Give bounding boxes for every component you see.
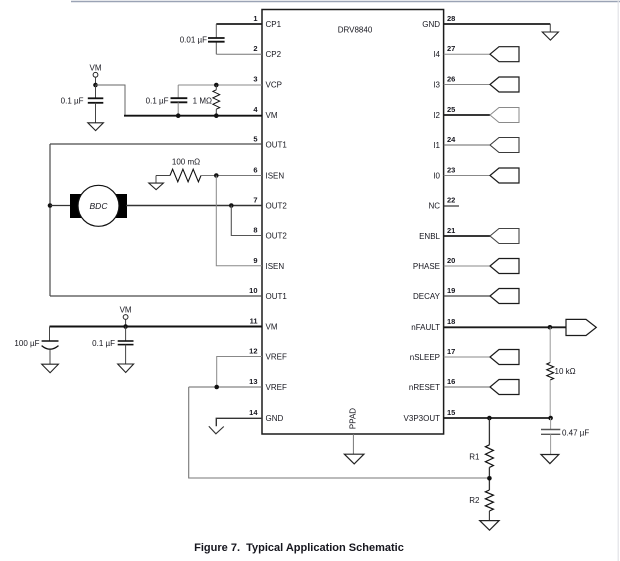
node VM rail junction	[123, 324, 128, 329]
wire pin10 OUT1	[50, 295, 262, 297]
svg-text:100 µF: 100 µF	[14, 339, 39, 348]
capacitor 100uF polarized	[49, 327, 51, 342]
wire cap loop vertical top	[215, 24, 217, 38]
wire pin2 CP2	[216, 53, 262, 55]
svg-text:22: 22	[447, 196, 455, 205]
resistor 10 kohm	[547, 363, 554, 381]
svg-text:12: 12	[249, 347, 257, 356]
svg-text:VREF: VREF	[266, 353, 287, 362]
svg-text:BDC: BDC	[90, 201, 109, 211]
svg-text:28: 28	[447, 14, 455, 23]
svg-text:17: 17	[447, 347, 455, 356]
node VCP junction	[214, 83, 219, 88]
node VREF junction	[214, 385, 219, 390]
svg-text:24: 24	[447, 135, 456, 144]
ground under 0.47uF	[541, 455, 559, 464]
input tag I4	[490, 47, 519, 62]
svg-text:CP2: CP2	[266, 50, 282, 59]
wire R1 top lead	[488, 418, 490, 445]
wire ISEN vertical to pin9	[216, 176, 262, 266]
wire VM rail bottom to pin11	[50, 326, 263, 328]
svg-text:26: 26	[447, 75, 455, 84]
wire VM terminal drop	[95, 77, 97, 85]
svg-text:20: 20	[447, 256, 455, 265]
motor BDC body	[78, 185, 119, 226]
wire pin22 NC stub	[444, 205, 459, 207]
svg-text:10 kΩ: 10 kΩ	[555, 367, 576, 376]
svg-text:0.47 µF: 0.47 µF	[562, 429, 589, 438]
wire pin1 CP1	[216, 23, 262, 25]
capacitor 0.1uF bottom	[125, 327, 127, 342]
ground at rsense	[155, 176, 157, 184]
page border right	[617, 0, 619, 561]
motor brush left	[70, 194, 86, 218]
ground under left 0.1uF cap	[88, 123, 104, 131]
wire pin3 VCP	[178, 84, 262, 86]
svg-text:CP1: CP1	[266, 20, 282, 29]
svg-text:0.1 µF: 0.1 µF	[146, 96, 169, 105]
svg-text:15: 15	[447, 408, 455, 417]
node ISEN junction	[214, 173, 219, 178]
svg-text:OUT1: OUT1	[266, 292, 288, 301]
node motor left	[48, 203, 53, 208]
input tag PHASE	[490, 259, 519, 274]
svg-text:VM: VM	[266, 111, 278, 120]
wire pin21 ENBL	[444, 235, 490, 237]
svg-text:13: 13	[249, 377, 257, 386]
svg-text:27: 27	[447, 44, 455, 53]
output tag nFAULT	[566, 319, 596, 335]
input tag DECAY	[490, 289, 519, 304]
wire cap loop vertical bottom	[215, 42, 217, 55]
wire jog to pin8	[231, 206, 262, 236]
input tag nSLEEP	[490, 350, 519, 365]
capacitor 0.47uF	[550, 418, 552, 430]
svg-text:VM: VM	[266, 323, 278, 332]
resistor 100 mohm	[170, 169, 201, 182]
svg-text:I0: I0	[433, 172, 440, 181]
wire pin16 nRESET	[444, 386, 490, 388]
node V3P3OUT junction cap	[548, 416, 553, 421]
wire pin26 I3	[444, 84, 490, 86]
input tag I0	[490, 168, 519, 183]
capacitor C1 0.01uF plates	[208, 37, 225, 39]
node R1/R2 junction	[487, 476, 492, 481]
svg-text:I2: I2	[433, 111, 440, 120]
svg-text:VM: VM	[120, 306, 132, 315]
wire VREF loop down and right	[189, 387, 490, 478]
svg-text:nSLEEP: nSLEEP	[410, 353, 440, 362]
svg-text:GND: GND	[266, 414, 284, 423]
svg-text:21: 21	[447, 226, 455, 235]
svg-text:10: 10	[249, 286, 257, 295]
svg-text:Figure 7. Typical Application: Figure 7. Typical Application Schematic	[194, 542, 404, 554]
svg-text:14: 14	[249, 408, 258, 417]
ground at pin14 (open V)	[209, 426, 224, 434]
svg-text:R2: R2	[469, 496, 480, 505]
PPAD lead	[352, 434, 354, 454]
svg-text:PHASE: PHASE	[413, 262, 440, 271]
wire pin24 I1	[444, 144, 490, 146]
node pin7/pin8 junction	[229, 203, 234, 208]
wire pin5 OUT1	[50, 143, 262, 145]
svg-text:VM: VM	[90, 64, 102, 73]
resistor R1	[485, 445, 493, 468]
wire R1 bottom lead	[488, 467, 490, 490]
svg-text:2: 2	[253, 44, 257, 53]
wire motor left	[50, 205, 72, 207]
svg-text:0.1 µF: 0.1 µF	[92, 339, 115, 348]
wire VM jog right	[96, 85, 126, 116]
node VM junction	[93, 83, 98, 88]
svg-text:0.01 µF: 0.01 µF	[180, 36, 207, 45]
svg-text:I4: I4	[433, 50, 440, 59]
wire pin12 VREF	[217, 357, 262, 388]
page border top	[71, 1, 620, 3]
wire rsense left lead	[156, 175, 170, 177]
resistor R2	[485, 490, 493, 511]
ground under R2	[480, 521, 499, 531]
wire pin19 DECAY	[444, 295, 490, 297]
svg-text:nFAULT: nFAULT	[411, 323, 440, 332]
wire pin23 I0	[444, 175, 490, 177]
svg-text:4: 4	[253, 105, 258, 114]
svg-text:ISEN: ISEN	[266, 172, 285, 181]
svg-text:9: 9	[253, 256, 257, 265]
svg-text:V3P3OUT: V3P3OUT	[404, 414, 441, 423]
svg-text:18: 18	[447, 317, 455, 326]
wire pin28 GND	[444, 23, 551, 25]
svg-text:GND: GND	[422, 20, 440, 29]
ground at PPAD	[344, 454, 364, 464]
svg-text:16: 16	[447, 377, 455, 386]
svg-text:NC: NC	[428, 202, 440, 211]
svg-text:ISEN: ISEN	[266, 262, 285, 271]
svg-text:VREF: VREF	[266, 383, 287, 392]
svg-text:PPAD: PPAD	[348, 408, 357, 429]
svg-text:I1: I1	[433, 141, 440, 150]
svg-text:5: 5	[253, 135, 257, 144]
svg-text:VCP: VCP	[266, 81, 282, 90]
wire left loop vertical	[49, 144, 51, 296]
svg-text:23: 23	[447, 166, 455, 175]
input tag I3	[490, 77, 519, 92]
svg-text:7: 7	[253, 196, 257, 205]
svg-text:1 MΩ: 1 MΩ	[193, 96, 212, 105]
wire R2 bottom lead	[488, 511, 490, 521]
wire 10k bottom lead	[549, 380, 551, 418]
input tag nRESET	[490, 380, 519, 395]
wire motor right to pin7	[126, 205, 262, 207]
wire pin25 I2	[444, 114, 490, 116]
wire pin17 nSLEEP	[444, 356, 490, 358]
node resistor to VM rail	[214, 113, 219, 118]
svg-text:OUT2: OUT2	[266, 202, 288, 211]
node cap to VM rail	[176, 113, 181, 118]
svg-text:19: 19	[447, 286, 455, 295]
node nFAULT junction	[548, 325, 553, 330]
svg-text:DECAY: DECAY	[413, 292, 441, 301]
svg-text:6: 6	[253, 166, 257, 175]
svg-text:25: 25	[447, 105, 455, 114]
ground under 100uF	[42, 364, 59, 373]
input tag I2	[490, 108, 519, 123]
svg-text:nRESET: nRESET	[409, 383, 440, 392]
IC body U1 DRV8840	[262, 10, 444, 435]
svg-text:0.1 µF: 0.1 µF	[61, 96, 84, 105]
resistor 1 Mohm	[213, 90, 220, 109]
svg-text:R1: R1	[469, 453, 480, 462]
capacitor 0.1uF at VCP	[177, 85, 179, 98]
svg-text:OUT2: OUT2	[266, 232, 288, 241]
svg-text:OUT1: OUT1	[266, 141, 288, 150]
ground at pin28	[542, 32, 558, 40]
svg-text:1: 1	[253, 14, 257, 23]
motor brush right	[111, 194, 127, 218]
svg-text:3: 3	[253, 75, 257, 84]
wire VM rail to pin4	[124, 115, 262, 117]
svg-text:I3: I3	[433, 81, 440, 90]
wire pin14 GND	[216, 418, 262, 426]
svg-text:ENBL: ENBL	[419, 232, 440, 241]
wire pin20 PHASE	[444, 265, 490, 267]
svg-text:100 mΩ: 100 mΩ	[172, 157, 200, 166]
wire pin13 VREF	[189, 386, 262, 388]
ground under bottom 0.1uF	[118, 364, 134, 373]
wire pin15 V3P3OUT	[444, 417, 551, 419]
svg-text:DRV8840: DRV8840	[338, 26, 373, 35]
wire pin18 nFAULT	[444, 326, 566, 328]
wire 10k top lead	[549, 327, 551, 362]
input tag I1	[490, 138, 519, 153]
wire pin27 I4	[444, 53, 490, 55]
wire rsense right to pin6	[201, 175, 262, 177]
input tag ENBL	[490, 229, 519, 244]
capacitor 0.1uF at VM terminal	[95, 85, 97, 98]
node V3P3OUT junction R1	[487, 416, 492, 421]
svg-text:11: 11	[250, 317, 258, 326]
svg-text:8: 8	[253, 226, 257, 235]
